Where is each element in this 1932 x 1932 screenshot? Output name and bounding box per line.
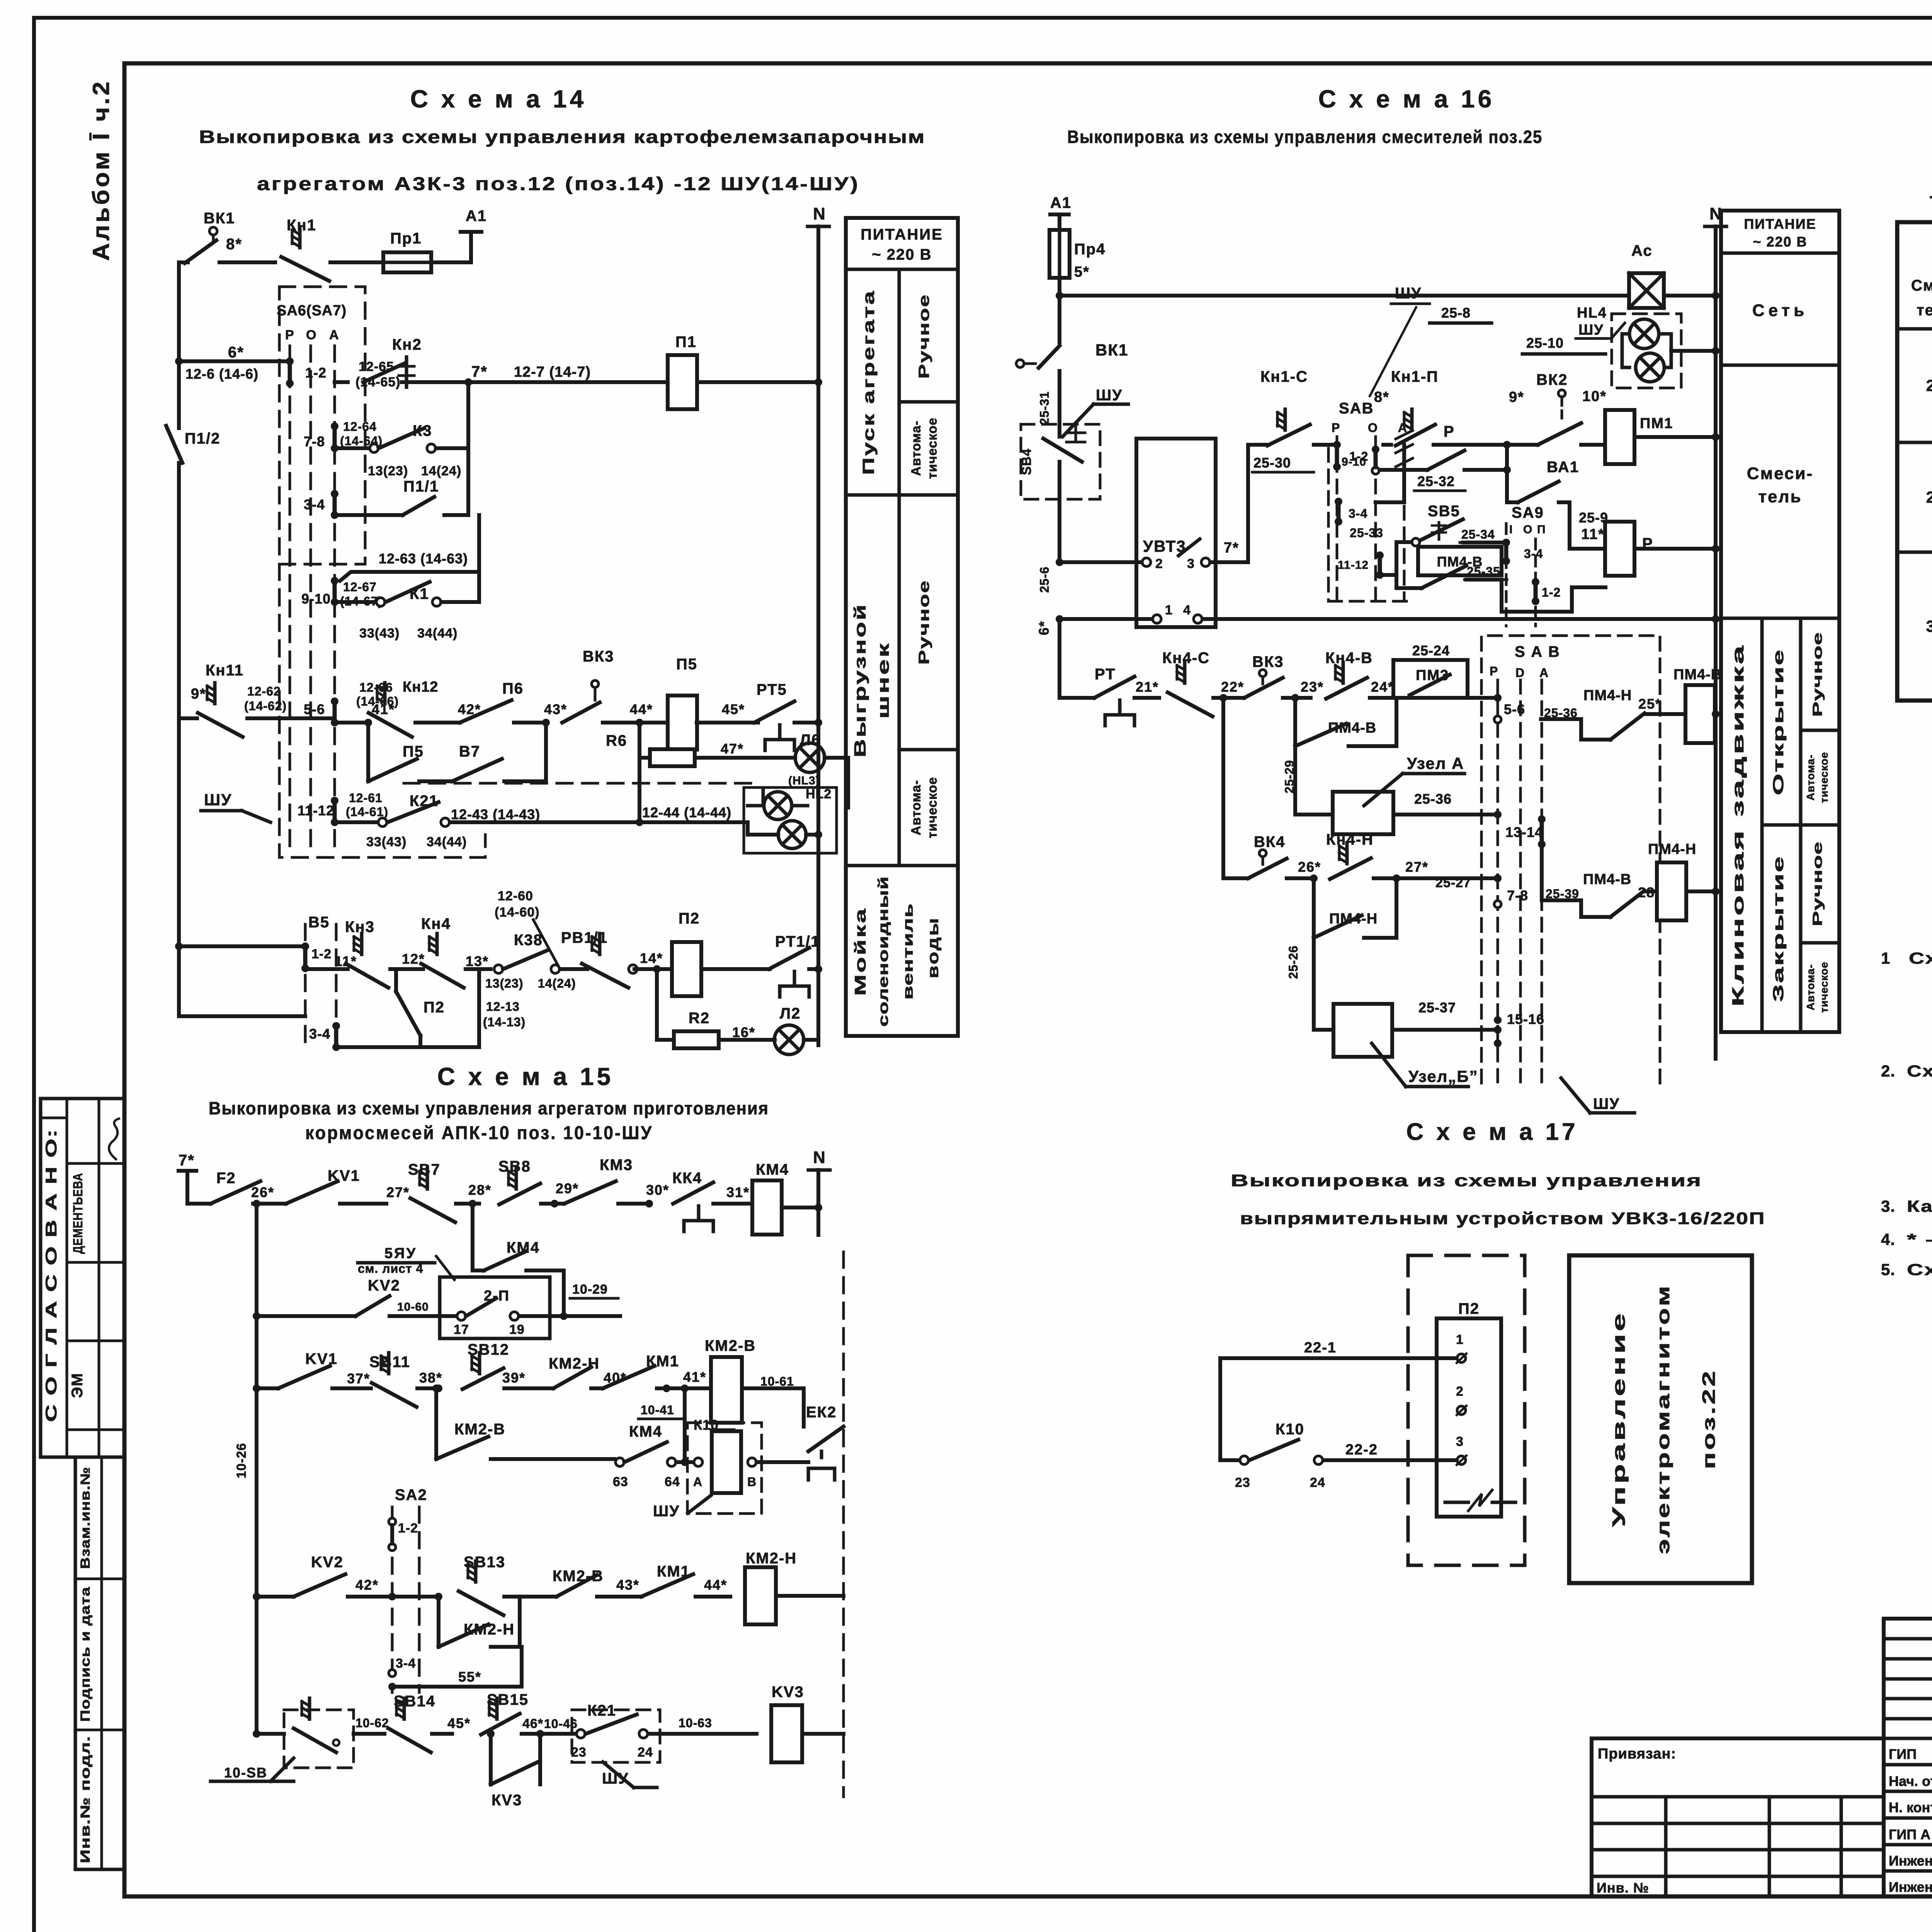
pushbutton SB5: [1350, 503, 1463, 575]
dashed ШУ boundary schema 15: [842, 1252, 845, 1797]
mode16 text Смеситель: [1747, 464, 1813, 506]
svg-text:F2: F2: [216, 1170, 236, 1187]
coil КМ2-В: [667, 1337, 804, 1423]
svg-text:44*: 44*: [704, 1577, 727, 1593]
svg-text:25-35: 25-35: [1467, 565, 1500, 578]
contact KV1 (rung2): [278, 1350, 371, 1388]
svg-text:КК4: КК4: [672, 1170, 702, 1187]
svg-text:34(44): 34(44): [417, 626, 457, 641]
rung SB11 wire: [257, 1386, 278, 1390]
contact 3-4 on В5: [309, 924, 340, 1051]
svg-text:33(43): 33(43): [366, 835, 406, 849]
node N (schema 14): [808, 204, 829, 1045]
svg-text:37*: 37*: [347, 1371, 370, 1386]
svg-text:31*: 31*: [726, 1184, 750, 1200]
pushbutton Кн4-Н: [1326, 831, 1502, 890]
label ШУ (SB4): [1063, 387, 1128, 437]
pin 2: [1456, 1384, 1466, 1415]
contact 3-4: [304, 490, 338, 519]
relay contact К1 with sockets 33(43) 34(44): [335, 572, 479, 641]
svg-text:10*: 10*: [1582, 388, 1607, 405]
svg-text:7*: 7*: [471, 363, 488, 380]
svg-text:11-12: 11-12: [298, 803, 334, 818]
svg-text:5-6: 5-6: [1504, 701, 1525, 717]
svg-text:KV3: KV3: [772, 1684, 804, 1701]
svg-text:Ручное: Ручное: [916, 580, 932, 665]
svg-text:Пр4: Пр4: [1074, 241, 1105, 258]
svg-text:25-31: 25-31: [1037, 391, 1051, 425]
coil П5: [668, 656, 697, 750]
main rung wire 12-7: [335, 363, 822, 386]
title block names text: [1889, 1746, 1932, 1895]
svg-text:ГИП А: ГИП А: [1889, 1827, 1930, 1842]
contact КМ4 bypass (2-П): [469, 1200, 564, 1316]
svg-text:С х е м а 16: С х е м а 16: [1318, 85, 1495, 113]
svg-text:23*: 23*: [1301, 679, 1324, 695]
contact 7-8: [304, 422, 338, 452]
wire left drop: [1218, 1358, 1222, 1460]
svg-text:кормосмесей АПК-10 поз. 10-1: кормосмесей АПК-10 поз. 10-10-ШУ: [305, 1123, 653, 1143]
block 2-П with 5ЯУ: [358, 1245, 550, 1338]
svg-text:Кн4-В: Кн4-В: [1325, 650, 1373, 667]
svg-text:1-2: 1-2: [311, 947, 332, 961]
svg-text:Кн11: Кн11: [206, 662, 244, 679]
contact SA2 1-2: [389, 1518, 418, 1551]
wire left bus schema 14: [177, 262, 181, 421]
svg-text:34: 34: [1926, 617, 1932, 635]
svg-text:16*: 16*: [732, 1024, 755, 1040]
svg-text:Смеси-: Смеси-: [1747, 464, 1813, 483]
svg-text:Р: Р: [1490, 664, 1498, 678]
svg-text:Автома-: Автома-: [909, 420, 923, 476]
sidebar inventory box: [75, 1457, 124, 1869]
svg-text:П1/1: П1/1: [403, 478, 439, 495]
switch block SA6(SA7): [277, 287, 365, 564]
label ШУ upper: [1370, 285, 1430, 396]
schema 16 mode table frame: [1721, 211, 1839, 1032]
svg-text:1: 1: [1881, 949, 1890, 967]
svg-text:В5: В5: [308, 914, 330, 931]
svg-text:В7: В7: [459, 743, 480, 760]
svg-text:Кн12: Кн12: [403, 679, 438, 695]
svg-text:ЭМ: ЭМ: [69, 1372, 86, 1398]
svg-text:ШУ: ШУ: [653, 1503, 680, 1520]
svg-text:2.: 2.: [1881, 1062, 1895, 1080]
svg-text:43*: 43*: [616, 1577, 639, 1593]
svg-text:КМ2-Н: КМ2-Н: [549, 1355, 600, 1372]
svg-text:Автома-: Автома-: [909, 780, 923, 835]
svg-text:Выкопировка из схемы управл: Выкопировка из схемы управления картофел…: [199, 127, 925, 147]
coil KV3: [771, 1684, 844, 1762]
coil П2: [672, 910, 822, 996]
svg-text:ПМ4-Н: ПМ4-Н: [1583, 687, 1632, 704]
svg-text:3.: 3.: [1881, 1197, 1895, 1215]
svg-text:46*: 46*: [522, 1716, 543, 1731]
coil ПМ4-В: [1673, 667, 1722, 743]
svg-text:25-34: 25-34: [1461, 527, 1495, 541]
contact SA9 1-2: [1502, 578, 1605, 612]
svg-text:Р: Р: [285, 328, 294, 342]
svg-text:25-36: 25-36: [1414, 791, 1452, 807]
svg-text:ГИП: ГИП: [1889, 1746, 1917, 1762]
svg-text:SB7: SB7: [408, 1161, 440, 1178]
svg-text:Р: Р: [1444, 423, 1455, 440]
terminals 2 3 of УВТ3: [1056, 556, 1248, 571]
wire 8*: [219, 236, 275, 262]
svg-text:Схема выполнена на листах: Схема выполнена на листах 3...7.: [1907, 1260, 1932, 1279]
svg-text:12-61: 12-61: [349, 791, 383, 805]
svg-text:А1: А1: [1050, 194, 1071, 211]
svg-text:ШУ: ШУ: [1593, 1095, 1620, 1112]
svg-text:5.: 5.: [1881, 1260, 1895, 1279]
svg-text:Кн4-Н: Кн4-Н: [1326, 831, 1374, 848]
contact КМ1 (rung2): [603, 1353, 679, 1392]
svg-text:3: 3: [1187, 556, 1195, 571]
svg-text:9*: 9*: [1509, 389, 1524, 405]
svg-text:2: 2: [1456, 1384, 1464, 1399]
thermal contact РТ5: [754, 681, 822, 750]
svg-text:соленоидный: соленоидный: [875, 876, 891, 1027]
svg-text:Катушки реле К1, К3 см. лис: Катушки реле К1, К3 см. лист 3, реле К 2…: [1907, 1197, 1932, 1215]
svg-text:47*: 47*: [721, 741, 744, 757]
svg-text:KV2: KV2: [311, 1554, 344, 1571]
svg-text:39*: 39*: [502, 1370, 526, 1386]
svg-text:3-4: 3-4: [1349, 507, 1367, 520]
svg-text:12-63 (14-63): 12-63 (14-63): [379, 551, 468, 566]
svg-text:Взам.инв.№: Взам.инв.№: [78, 1467, 93, 1569]
terminal А1: [461, 207, 487, 262]
svg-text:R2: R2: [689, 1010, 710, 1027]
svg-text:SB13: SB13: [464, 1554, 505, 1571]
svg-text:Кн1-П: Кн1-П: [1391, 368, 1439, 385]
svg-text:В: В: [747, 1475, 757, 1489]
lamp block HL4: [1576, 305, 1719, 388]
svg-text:HL4: HL4: [1577, 305, 1607, 321]
mode table text Автоматическое (пуск): [909, 418, 940, 479]
svg-text:6*: 6*: [228, 344, 244, 361]
svg-text:25-10: 25-10: [1526, 335, 1564, 351]
svg-text:ПИТАНИЕ: ПИТАНИЕ: [861, 226, 943, 243]
svg-text:10-41: 10-41: [641, 1403, 674, 1417]
svg-text:Ручное: Ручное: [1810, 841, 1825, 926]
svg-text:Выкопировка из схемы управл: Выкопировка из схемы управления: [1231, 1171, 1702, 1190]
contact 11-12: [298, 797, 338, 826]
svg-text:П5: П5: [403, 743, 424, 760]
svg-text:Р: Р: [1332, 421, 1340, 435]
svg-text:1: 1: [1165, 603, 1173, 617]
svg-text:Смси-: Смси-: [1911, 277, 1932, 294]
svg-text:24: 24: [1310, 1475, 1325, 1490]
svg-text:ЕК2: ЕК2: [806, 1404, 837, 1421]
pushbutton SB7: [386, 1161, 479, 1222]
resistor R2: [653, 965, 719, 1048]
svg-text:12-44 (14-44): 12-44 (14-44): [642, 804, 731, 820]
contact 5-6: [304, 697, 338, 726]
svg-text:13(23): 13(23): [485, 976, 524, 990]
pushbutton Кн1-П: [1374, 368, 1511, 449]
svg-text:25-26: 25-26: [1286, 946, 1300, 979]
contact SAB 3-4: [1335, 498, 1367, 526]
svg-text:тель: тель: [1917, 302, 1932, 319]
pushbutton Кн4-С: [1162, 650, 1244, 716]
svg-text:10-SB: 10-SB: [224, 1765, 267, 1781]
svg-text:Инженер: Инженер: [1889, 1853, 1932, 1869]
svg-text:О: О: [306, 328, 316, 342]
svg-text:SB14: SB14: [394, 1693, 435, 1710]
svg-text:ШУ: ШУ: [1395, 285, 1422, 302]
svg-text:1-2: 1-2: [305, 365, 327, 381]
svg-text:25-8: 25-8: [1441, 305, 1471, 321]
title block left part: [1592, 1738, 1884, 1896]
contact КМ3: [556, 1156, 653, 1207]
svg-text:10-60: 10-60: [397, 1301, 429, 1313]
svg-text:12-43 (14-43): 12-43 (14-43): [451, 806, 540, 822]
svg-text:SB4: SB4: [1019, 448, 1034, 475]
svg-text:Узел А: Узел А: [1407, 754, 1464, 772]
wire 26*: [251, 1184, 286, 1207]
svg-text:Мойка: Мойка: [852, 907, 869, 996]
device box Управление электромагнитом поз.22: [1569, 1255, 1752, 1583]
svg-text:РТ: РТ: [1095, 666, 1116, 683]
svg-text:23: 23: [1235, 1475, 1250, 1490]
svg-text:12-60: 12-60: [498, 889, 533, 903]
svg-text:тель: тель: [1758, 487, 1802, 506]
svg-text:25-32: 25-32: [1417, 473, 1455, 489]
contact Р (selfhold): [1380, 423, 1507, 491]
wire 44*: [630, 701, 668, 723]
svg-text:22-2: 22-2: [1345, 1442, 1378, 1458]
svg-text:1-2: 1-2: [398, 1521, 418, 1536]
svg-text:25: 25: [1926, 376, 1932, 395]
svg-text:14*: 14*: [640, 950, 663, 966]
node N (schema 15): [808, 1148, 830, 1235]
svg-text:шнек: шнек: [874, 641, 892, 719]
svg-text:ВК3: ВК3: [583, 648, 614, 665]
svg-text:25-24: 25-24: [1412, 643, 1450, 658]
wire 12-44 to HL2: [636, 758, 748, 826]
svg-text:КМ4: КМ4: [756, 1161, 789, 1178]
svg-text:Схема 14 выполнена для агре: Схема 14 выполнена для агрегата поз.12 и…: [1909, 949, 1932, 967]
svg-text:38*: 38*: [419, 1370, 442, 1386]
rung bottom 10-62: [253, 1698, 389, 1768]
wire 10-41: [638, 1384, 689, 1458]
svg-text:27*: 27*: [386, 1184, 410, 1200]
wire shielded drop: [1376, 430, 1413, 502]
pushbutton Кн2: [355, 336, 422, 389]
svg-text:~ 220 В: ~ 220 В: [1753, 234, 1807, 250]
sidebar signature: [109, 1119, 119, 1159]
fuse Пр1: [383, 230, 431, 272]
svg-text:3-4: 3-4: [304, 497, 325, 512]
svg-text:4.: 4.: [1881, 1230, 1895, 1248]
relay К10 coil: [687, 1417, 808, 1514]
svg-text:19: 19: [509, 1322, 525, 1337]
title block names grid: [1884, 1619, 1932, 1896]
wire 25-39 ПМ4-В lower: [1542, 844, 1661, 917]
svg-text:Ручное: Ручное: [916, 294, 932, 379]
wire 10*: [1581, 388, 1607, 445]
wire top rung schema 16: [1056, 292, 1719, 299]
pushbutton SB14: [388, 1693, 452, 1752]
svg-text:10-29: 10-29: [572, 1282, 608, 1297]
svg-text:ПМ1: ПМ1: [1640, 415, 1673, 432]
contact SA2 3-4: [388, 1647, 522, 1690]
svg-text:С О Г Л А С О В А Н О:: С О Г Л А С О В А Н О:: [43, 1128, 60, 1422]
svg-text:44*: 44*: [630, 701, 653, 717]
mode table text ПИТАНИЕ 220В: [861, 226, 943, 263]
table 4 header Смеситель: [1911, 277, 1932, 319]
contact В7 bypass: [452, 723, 546, 781]
svg-text:43*: 43*: [544, 701, 567, 717]
svg-text:1: 1: [1456, 1332, 1464, 1347]
contact ПМ4-В (schema 16 upper): [1396, 547, 1507, 588]
pin 1: [1456, 1332, 1466, 1363]
svg-text:10-63: 10-63: [679, 1716, 712, 1730]
rung ВК4: [1223, 698, 1248, 878]
contact SAB 5-6: [1494, 694, 1525, 723]
wire left bus to РТ rung: [1058, 619, 1061, 698]
svg-text:N: N: [813, 1148, 825, 1167]
terminal 7*: [179, 1152, 196, 1204]
lamp Л6 (HL3): [695, 731, 848, 808]
svg-text:26*: 26*: [1298, 859, 1321, 875]
svg-text:28*: 28*: [468, 1182, 492, 1198]
svg-text:13-14: 13-14: [1505, 824, 1543, 840]
label ШУ (К10): [653, 1495, 711, 1520]
svg-text:Схема 16 выполнена для смес: Схема 16 выполнена для смесителя поз.25 …: [1907, 1062, 1932, 1080]
svg-text:13(23): 13(23): [368, 464, 408, 478]
limit switch ВК4: [1248, 833, 1321, 882]
thermal contact КК4: [646, 1170, 753, 1231]
svg-text:30*: 30*: [646, 1182, 669, 1198]
svg-text:10-62: 10-62: [355, 1716, 389, 1730]
branch В5 left stubs: [175, 942, 305, 1016]
svg-text:Нач. отд.: Нач. отд.: [1889, 1773, 1932, 1789]
contact П1/1: [335, 448, 468, 515]
svg-text:ВК4: ВК4: [1254, 833, 1286, 850]
coil КМ4: [726, 1161, 822, 1235]
wire 45*: [697, 701, 758, 723]
wire 14*: [634, 950, 672, 969]
svg-text:8*: 8*: [226, 236, 242, 253]
pushbutton SB8: [468, 1158, 564, 1207]
svg-text:вентиль: вентиль: [900, 903, 916, 1000]
svg-text:Инв.№ подл.: Инв.№ подл.: [78, 1736, 93, 1863]
svg-text:11-12: 11-12: [1338, 559, 1369, 571]
svg-text:ШУ: ШУ: [204, 791, 232, 809]
rung KV2: [253, 1554, 442, 1600]
svg-text:42*: 42*: [355, 1577, 379, 1593]
svg-text:П: П: [1537, 523, 1546, 536]
svg-text:Клиновая задвижка: Клиновая задвижка: [1729, 643, 1747, 1007]
contact КМ2-В (rung3): [535, 1568, 641, 1597]
svg-text:24: 24: [638, 1745, 653, 1760]
svg-text:(HL3): (HL3): [788, 774, 820, 787]
mode table text Автоматическое (шнек): [909, 777, 940, 838]
svg-text:SA2: SA2: [395, 1486, 427, 1503]
wire 25-8: [1430, 305, 1492, 323]
mode table text Выгрузной шнек: [851, 603, 892, 757]
svg-text:21*: 21*: [1136, 679, 1159, 695]
dashed line А: [333, 346, 336, 848]
dashed line Р: [289, 346, 291, 848]
contact П1/2: [166, 425, 220, 1016]
svg-text:64: 64: [665, 1475, 680, 1489]
coil П1: [668, 333, 697, 409]
svg-text:34(44): 34(44): [427, 835, 467, 849]
svg-text:Узел„Б”: Узел„Б”: [1408, 1067, 1478, 1085]
contact KV3 bypass: [491, 1734, 540, 1809]
svg-text:КМ2-В: КМ2-В: [705, 1337, 756, 1354]
limit switch ВК2: [1507, 371, 1581, 445]
svg-text:Ас: Ас: [1631, 242, 1653, 259]
svg-text:27*: 27*: [1405, 859, 1429, 875]
svg-text:25-33: 25-33: [1350, 526, 1383, 540]
svg-text:* – заводская маркировка п: * – заводская маркировка проводов: [1907, 1230, 1932, 1248]
svg-text:ВК2: ВК2: [1536, 371, 1568, 388]
contact SAB 7-8: [1494, 874, 1528, 908]
svg-text:3-4: 3-4: [1524, 547, 1543, 561]
svg-text:А1: А1: [466, 207, 487, 224]
contact КМ2-Н selfhold: [439, 1597, 520, 1647]
switch block SAB upper: [1328, 400, 1411, 601]
pushbutton Кн1-С: [1252, 368, 1337, 472]
lamp Ас: [1629, 242, 1664, 308]
label 10-SB: [211, 1758, 294, 1781]
svg-text:КМ2-Н: КМ2-Н: [746, 1550, 797, 1567]
svg-text:ПМ4-Н: ПМ4-Н: [1648, 841, 1696, 857]
svg-text:воды: воды: [925, 917, 942, 978]
svg-text:Привязан:: Привязан:: [1598, 1746, 1676, 1762]
svg-text:Альбом Ī ч.2: Альбом Ī ч.2: [88, 79, 114, 261]
svg-text:9-10: 9-10: [1342, 456, 1366, 468]
svg-text:О: О: [1368, 421, 1378, 435]
svg-text:5-6: 5-6: [304, 701, 325, 717]
svg-text:Инв. №: Инв. №: [1597, 1880, 1649, 1896]
svg-text:А: А: [329, 328, 339, 342]
svg-text:9*: 9*: [191, 686, 206, 702]
svg-text:7-8: 7-8: [304, 434, 325, 449]
contact ПМ4-В selfhold (schema 16): [1295, 698, 1396, 746]
svg-text:КМ3: КМ3: [600, 1156, 633, 1173]
coil КМ2-Н: [745, 1550, 844, 1624]
pushbutton SB15: [447, 1691, 578, 1738]
svg-text:ШУ: ШУ: [1096, 387, 1122, 404]
svg-text:5*: 5*: [1074, 264, 1090, 280]
svg-text:А: А: [1539, 666, 1548, 680]
svg-text:3-4: 3-4: [396, 1656, 416, 1671]
svg-text:П5: П5: [676, 656, 697, 673]
mode table text Мойка соленоидный вентиль воды: [852, 876, 942, 1027]
svg-text:ПМ4-В: ПМ4-В: [1583, 871, 1631, 888]
svg-text:63: 63: [613, 1475, 628, 1489]
svg-text:Открытие: Открытие: [1770, 648, 1787, 795]
wire 22-2: [1323, 1442, 1457, 1460]
wire 22-1: [1220, 1340, 1457, 1358]
dashed boundary автоматическое: [404, 782, 752, 785]
wire 25-36 to ПМ4-Н: [1541, 706, 1611, 740]
svg-text:КМ2-В: КМ2-В: [454, 1421, 505, 1438]
svg-text:(14-13): (14-13): [483, 1015, 526, 1029]
limit switch ВК3: [544, 648, 643, 726]
svg-text:К10: К10: [1276, 1421, 1304, 1438]
coil Р: [1605, 522, 1719, 576]
bus bottom schema 16: [1056, 603, 1719, 623]
svg-text:55*: 55*: [458, 1669, 481, 1685]
contact 9-10: [301, 577, 338, 607]
connector box П2: [1437, 1300, 1501, 1517]
fuse Пр4: [1049, 230, 1105, 296]
